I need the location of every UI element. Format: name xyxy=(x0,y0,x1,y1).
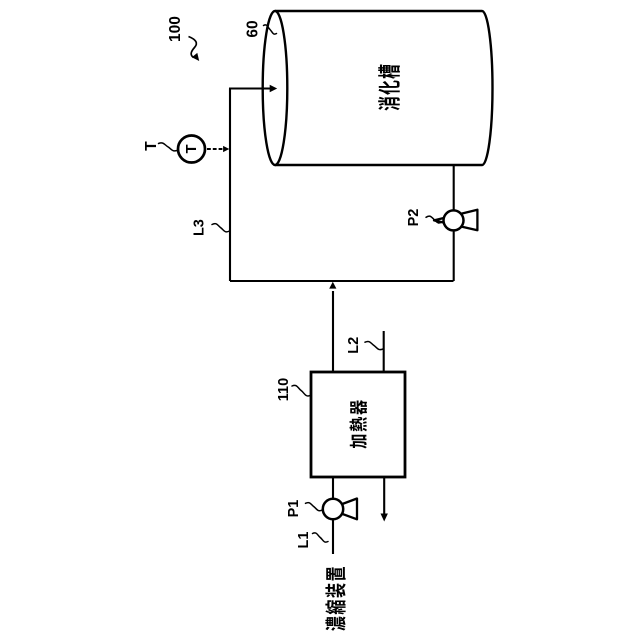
heater label 加熱器 xyxy=(350,400,367,449)
digestion tank left end cap ellipse xyxy=(263,11,288,165)
heater box 110 xyxy=(311,372,405,477)
pipe L3 bottom horizontal segment xyxy=(230,280,454,282)
leader from P1 to pump xyxy=(306,503,323,511)
pipe from heater to L3 with up arrow xyxy=(332,291,334,372)
svg-text:P2: P2 xyxy=(406,209,422,227)
squiggly arrow from 100 xyxy=(189,37,197,58)
tank label 消化槽 xyxy=(378,65,400,111)
leader from L3 to pipe xyxy=(212,224,230,232)
svg-text:L1: L1 xyxy=(296,532,312,549)
svg-text:P1: P1 xyxy=(286,500,302,518)
leader from 110 to heater xyxy=(292,385,311,396)
pipe L2 stub into heater xyxy=(383,331,385,372)
svg-text:L3: L3 xyxy=(192,219,208,236)
tank inlet line with arrow xyxy=(229,87,270,89)
svg-text:T: T xyxy=(143,141,160,151)
pipe L3 vertical segment xyxy=(229,89,231,282)
temperature sensor circle xyxy=(178,136,205,163)
digestion tank 60 body xyxy=(275,11,492,165)
svg-text:60: 60 xyxy=(245,20,262,37)
svg-text:100: 100 xyxy=(167,16,184,42)
leader from L1 to pipe xyxy=(313,533,329,542)
leader from P2 to pump xyxy=(426,216,442,223)
pump P1 circle xyxy=(323,499,343,519)
svg-text:L2: L2 xyxy=(346,337,362,354)
pipe from tank bottom through pump P2 xyxy=(453,165,455,281)
pump P2 circle xyxy=(444,210,464,230)
leader from 60 to tank xyxy=(264,25,277,34)
svg-text:T: T xyxy=(184,144,200,153)
dashed line from sensor to pipe xyxy=(207,148,224,150)
pipe from heater bottom through pump P1 xyxy=(332,477,334,554)
pump P1 outlet horn xyxy=(329,499,357,520)
source label 濃縮装置 xyxy=(325,567,345,631)
pump P2 outlet horn xyxy=(434,210,477,231)
svg-text:110: 110 xyxy=(276,378,292,401)
leader from L2 to pipe xyxy=(365,341,383,349)
leader from T label to sensor xyxy=(159,143,178,151)
heater outlet pipe with down arrow xyxy=(383,477,385,514)
